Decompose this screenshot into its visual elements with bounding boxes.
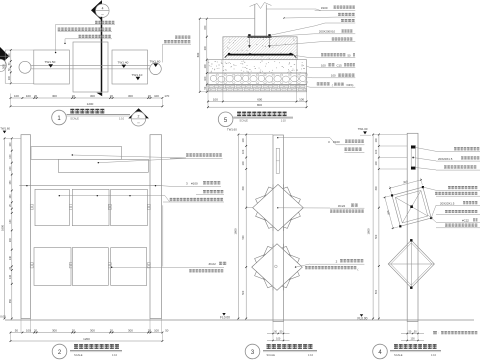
svg-text:2: 2	[138, 115, 140, 119]
svg-text:#C22: #C22	[338, 204, 346, 208]
svg-text:SCALE: SCALE	[394, 353, 403, 357]
svg-text:TW1.10: TW1.10	[132, 73, 143, 77]
view 3 middle leader: #C22锚栓 / 专业厂家二次深化设计	[277, 207, 278, 208]
svg-text:1200: 1200	[87, 102, 94, 106]
svg-text:100: 100	[204, 76, 207, 81]
note: 所有钢件由专业厂家二次设计	[433, 331, 437, 334]
view 1 plan: section marker 4 (top)	[91, 0, 109, 21]
svg-text:20: 20	[72, 94, 76, 98]
title 4: 趣味科普牌侧视图	[373, 344, 441, 359]
view 4 tilted square sign	[391, 186, 432, 227]
rebar bar at footing bottom (thick)	[228, 54, 294, 56]
svg-text:50: 50	[348, 53, 351, 57]
view 3 post bottom dims 50/50 and 100	[267, 322, 290, 342]
plan left column circle	[19, 61, 31, 73]
section cut line (thick vertical through plan)	[101, 17, 103, 93]
svg-text:100: 100	[9, 142, 12, 147]
svg-text:SCALE: SCALE	[239, 119, 248, 123]
view 2 panels row 2	[34, 248, 71, 286]
svg-text:TW1.60: TW1.60	[227, 128, 237, 132]
view 2 total 1200	[11, 340, 163, 342]
svg-text:300: 300	[1, 64, 5, 69]
plan total dimension 1200	[11, 105, 163, 107]
svg-text:20X20X1.5: 20X20X1.5	[440, 202, 455, 206]
svg-text:20: 20	[148, 94, 152, 98]
svg-text:100: 100	[242, 161, 245, 166]
svg-text:300: 300	[90, 94, 95, 98]
svg-text:500: 500	[242, 290, 245, 295]
svg-text:140: 140	[9, 274, 12, 279]
view 3 slot in post	[276, 148, 279, 173]
compacted soil layer (brick blocks)	[208, 85, 307, 92]
svg-text:800: 800	[257, 103, 262, 107]
view 5 left dimension column	[196, 18, 255, 93]
svg-text:170: 170	[164, 94, 169, 98]
svg-text:20: 20	[34, 328, 38, 332]
svg-text:#100: #100	[321, 6, 328, 10]
svg-text:#C22: #C22	[462, 219, 469, 223]
plan callout row 2: 木纹装饰条 表面棕色与花纹图案(喷绘)	[58, 28, 111, 31]
break line at top of post	[250, 3, 272, 9]
view 3 post	[273, 135, 284, 322]
svg-text:20: 20	[110, 328, 114, 332]
svg-text:20: 20	[110, 94, 114, 98]
svg-text:100: 100	[8, 75, 11, 80]
view 2 right labels L4: 木纹装饰条 表面棕色与花纹图案(甲定)	[170, 198, 223, 201]
view 5 post (steel tube)	[254, 5, 256, 37]
view 4 inner dimension column	[373, 134, 407, 320]
svg-text:>93%): >93%)	[346, 83, 354, 87]
svg-text:200X200X10: 200X200X10	[319, 30, 336, 34]
svg-text:140: 140	[9, 255, 12, 260]
svg-text:SCALE: SCALE	[74, 353, 83, 357]
view 2 left post	[21, 135, 31, 319]
view 4 square dim 300 (top edge)	[390, 180, 421, 188]
svg-text:100: 100	[375, 161, 378, 166]
svg-text:FL0.00: FL0.00	[358, 317, 368, 321]
view 2 right post	[150, 135, 162, 319]
title 5: 趣味科普牌基础布置图	[218, 112, 293, 127]
svg-text:100: 100	[375, 149, 378, 154]
view 3 inner dimension column	[242, 134, 253, 320]
view 4 outer dimension 1600	[372, 135, 374, 319]
svg-text:300: 300	[52, 328, 57, 332]
svg-text:300: 300	[375, 186, 378, 191]
view 3 starburst sign lower	[255, 246, 300, 287]
view 2 bottom dimension row	[10, 319, 169, 334]
svg-text:SCALE: SCALE	[70, 116, 79, 120]
view 4 plate leaders: 2厚钢板 / 20X20X1.5厚钢块支架 / 专业厂家二次深化	[416, 148, 436, 152]
svg-text:100: 100	[14, 94, 19, 98]
svg-text:(: (	[332, 83, 333, 87]
svg-text:150: 150	[9, 180, 12, 185]
svg-text:1:10: 1:10	[308, 353, 314, 357]
anchor bolts with arrows	[249, 38, 251, 46]
view 5 bottom dimension 100/600/100	[207, 60, 307, 107]
plan sign band (two horizontal lines)	[31, 65, 150, 67]
svg-text:50: 50	[15, 328, 19, 332]
svg-text:4: 4	[102, 7, 104, 11]
svg-text:100: 100	[154, 94, 159, 98]
view 2 leader vertical to bottom label	[162, 205, 164, 266]
svg-text:1:10: 1:10	[431, 353, 437, 357]
view 3 top leader: 3厚 #100镀锌钢管立柱 / 木纹装饰条	[277, 137, 278, 138]
svg-text:600: 600	[257, 97, 262, 101]
svg-text:C15: C15	[337, 63, 343, 67]
svg-text:1200: 1200	[83, 337, 90, 341]
plan callout row 1: 2厚铝塑板饰面	[95, 21, 114, 24]
svg-text:100: 100	[299, 97, 304, 101]
svg-text:100: 100	[276, 337, 281, 340]
view 2 panels row 1	[35, 189, 69, 225]
gravel/cobble layer	[208, 73, 308, 85]
svg-text:1:10: 1:10	[281, 119, 287, 123]
svg-text:0.00: 0.00	[0, 315, 6, 319]
view 3 starburst sign upper	[256, 187, 301, 228]
svg-text:100: 100	[242, 138, 245, 143]
svg-text:140: 140	[9, 219, 12, 224]
svg-text:300: 300	[52, 94, 57, 98]
svg-text:500: 500	[375, 289, 378, 294]
svg-text:TW1.60: TW1.60	[0, 127, 10, 131]
svg-text:100: 100	[331, 74, 336, 78]
svg-text:TW1.60: TW1.60	[358, 127, 368, 131]
svg-text:TW1.60: TW1.60	[150, 60, 161, 64]
svg-text:100: 100	[321, 63, 326, 67]
svg-text:300: 300	[128, 94, 133, 98]
plan bottom dimension row (100 100 20 300 ...)	[10, 94, 170, 99]
svg-text:FL0.00: FL0.00	[220, 315, 230, 319]
svg-text:20: 20	[34, 94, 38, 98]
view 2 bottom label: #C22锚栓 / 专业厂家二次深化设计	[112, 266, 224, 268]
svg-text:50: 50	[165, 328, 169, 332]
svg-text:20X20X1.5: 20X20X1.5	[438, 157, 453, 161]
C15 concrete cushion layer (speckled)	[208, 60, 307, 73]
svg-text:600: 600	[196, 52, 200, 57]
view 4 post	[407, 133, 418, 321]
svg-text:SCALE: SCALE	[267, 353, 276, 357]
view 4 square leaders right	[423, 186, 480, 228]
svg-text:200: 200	[9, 237, 12, 242]
plan right callout: 4C22锚栓 / 专业厂家二次深化设计	[175, 36, 190, 39]
svg-text:#C22: #C22	[209, 262, 217, 266]
title 2: 趣味科普牌正立面图	[52, 344, 122, 359]
title 3: 趣味科普牌侧立面图	[245, 344, 317, 359]
view 2 right labels L1: 2厚铝塑板饰面 木纹装饰条	[72, 155, 186, 158]
svg-text:1600: 1600	[367, 228, 371, 234]
svg-text:150: 150	[204, 25, 207, 30]
svg-text:100: 100	[9, 166, 12, 171]
base plate (thick bar)	[248, 36, 272, 38]
plan panel rect 2 (middle, tall)	[73, 42, 108, 92]
svg-text:300: 300	[242, 186, 245, 191]
view 5 total dimension 800	[208, 106, 307, 108]
svg-text:100: 100	[8, 53, 11, 58]
svg-text:20: 20	[148, 328, 152, 332]
svg-text:100: 100	[213, 97, 218, 101]
svg-text:100: 100	[26, 94, 31, 98]
plan panel rect 3	[112, 50, 148, 84]
svg-text:TW1.40: TW1.40	[118, 61, 129, 65]
svg-text:500: 500	[242, 235, 245, 240]
plan panel rect 1	[34, 50, 70, 84]
view 3 outer dimension 1600	[237, 135, 239, 319]
plan callout row 3: 2厚铝塑饰面 木纹装饰条	[79, 35, 111, 38]
small circle on post (lower sign center)	[275, 265, 278, 268]
svg-text:#100: #100	[333, 140, 340, 144]
view 2 board 2	[58, 159, 148, 172]
panel clamp connectors	[30, 204, 33, 206]
svg-text:100: 100	[204, 64, 207, 69]
svg-text:#100: #100	[191, 182, 198, 186]
svg-text:300: 300	[128, 328, 133, 332]
svg-text:350: 350	[9, 298, 12, 303]
section marker 2 (below plan)	[128, 108, 149, 126]
plan left dimension 300 (100/50/50/100)	[1, 49, 33, 84]
ground line	[5, 319, 474, 321]
svg-text:1600: 1600	[234, 228, 238, 234]
svg-text:1600: 1600	[1, 225, 5, 231]
view 2 top board 1	[31, 147, 122, 160]
svg-text:20: 20	[72, 328, 76, 332]
svg-text:TW1.50: TW1.50	[45, 60, 56, 64]
svg-text:100: 100	[411, 337, 416, 340]
svg-text:500: 500	[375, 234, 378, 239]
svg-text:1:10: 1:10	[119, 116, 125, 120]
section marker at left edge	[0, 47, 9, 72]
svg-text:100: 100	[9, 154, 12, 159]
svg-text:100: 100	[242, 149, 245, 154]
svg-text:140: 140	[9, 194, 12, 199]
view 4 post bottom dims 50/50 and 100	[401, 322, 424, 342]
view 2 left dimension column	[1, 138, 21, 320]
svg-text:100: 100	[26, 328, 31, 332]
svg-text:(: (	[358, 267, 359, 271]
svg-text:100: 100	[154, 328, 159, 332]
title 1: 趣味科普牌平面图 1:10	[52, 109, 130, 125]
view 4 square dim 300 (left edge)	[385, 197, 393, 228]
view 2 horizontal rail	[19, 185, 161, 187]
svg-text:300: 300	[90, 328, 95, 332]
svg-text:1:10: 1:10	[112, 353, 118, 357]
view 2 right labels L3: 2厚铝塑饰面	[203, 190, 223, 193]
concrete footing with hatch	[199, 37, 321, 60]
plan right column circle	[150, 63, 162, 75]
view 5 leader labels (right)	[266, 6, 355, 88]
view 3 lower leader: 2厚铝塑板饰面 / 木纹装饰条...	[295, 266, 296, 267]
svg-text:200: 200	[204, 46, 207, 51]
svg-text:100: 100	[375, 138, 378, 143]
view 4 connection plate on post	[411, 145, 415, 169]
view 2 leader: panels row1 to label	[59, 195, 165, 197]
view 4 lower diamond sign	[388, 239, 434, 289]
